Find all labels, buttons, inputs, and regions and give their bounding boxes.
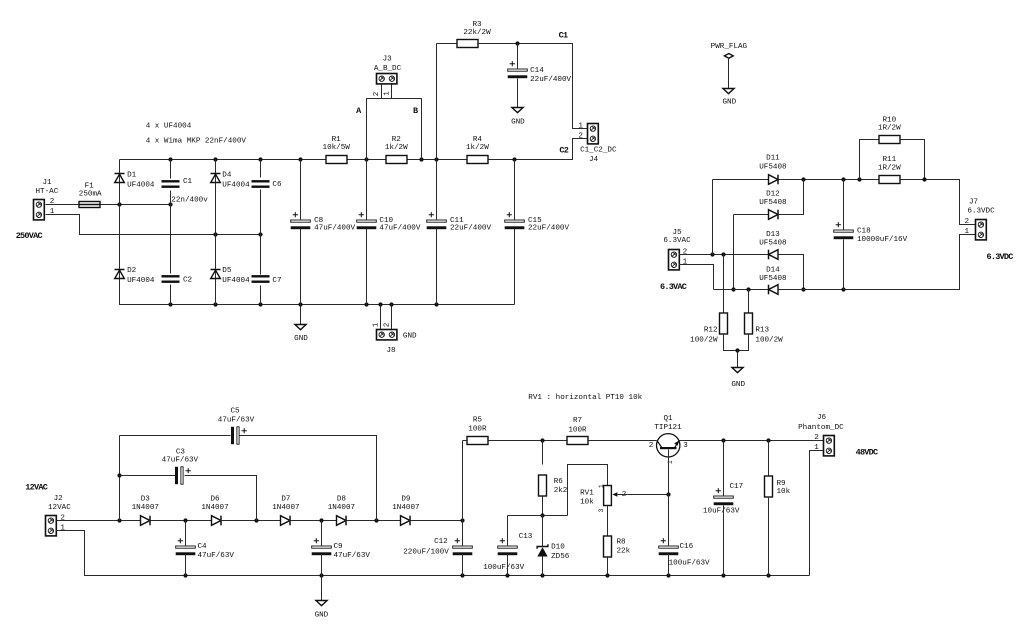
junction xyxy=(298,157,302,161)
svg-text:220uF/100V: 220uF/100V xyxy=(403,548,449,556)
svg-text:2: 2 xyxy=(384,322,392,327)
svg-text:2k2: 2k2 xyxy=(554,487,568,495)
wire R6 top xyxy=(542,441,544,465)
resistor R2 xyxy=(386,156,407,164)
junction xyxy=(721,438,725,442)
svg-text:1N4007: 1N4007 xyxy=(392,504,419,512)
wire D14 row left xyxy=(714,289,769,291)
junction xyxy=(505,573,509,577)
junction xyxy=(922,177,926,181)
wire C14 top xyxy=(517,44,519,69)
svg-text:22k/2W: 22k/2W xyxy=(463,29,491,37)
svg-text:22n/400v: 22n/400v xyxy=(171,197,208,205)
svg-text:Q1: Q1 xyxy=(663,415,673,423)
wire C8 bottom xyxy=(300,229,302,305)
svg-text:47uF/63V: 47uF/63V xyxy=(162,456,199,464)
capacitor C9 xyxy=(312,538,332,555)
svg-text:R10: R10 xyxy=(882,116,896,124)
wire J1 pin1 to bridge node xyxy=(46,215,261,235)
resistor R9 xyxy=(765,476,773,497)
wire to ground xyxy=(321,576,323,601)
junction xyxy=(540,573,544,577)
junction xyxy=(117,518,121,522)
wire R11 to J7 pin2 xyxy=(901,180,976,225)
svg-text:47uF/63V: 47uF/63V xyxy=(334,552,371,560)
wire D12 to D11 cathode xyxy=(779,180,804,215)
wire R3 to J4 pin1 xyxy=(479,44,588,129)
capacitor C14 xyxy=(508,61,528,78)
wire C5 right to diode row xyxy=(240,436,377,521)
svg-text:100R: 100R xyxy=(568,426,587,434)
wire C6 top xyxy=(260,160,262,178)
svg-text:2: 2 xyxy=(965,218,970,226)
junction xyxy=(605,573,609,577)
svg-text:12VAC: 12VAC xyxy=(25,483,47,493)
svg-text:J8: J8 xyxy=(386,347,396,355)
wire R12 R13 bottom join xyxy=(724,335,749,351)
wire J5 pin1 down to D14 row xyxy=(679,265,714,290)
wire Q1 emitter to J6 xyxy=(680,440,824,442)
junction xyxy=(766,438,770,442)
wire D3 to D6 xyxy=(150,520,212,522)
junction xyxy=(766,573,770,577)
wire R9 bottom xyxy=(768,497,770,576)
svg-text:GND: GND xyxy=(315,612,329,620)
diode D12 xyxy=(769,210,779,220)
svg-text:1k/2W: 1k/2W xyxy=(466,144,489,152)
svg-text:C2: C2 xyxy=(183,277,193,285)
svg-text:UF4004: UF4004 xyxy=(222,182,250,190)
svg-text:C4: C4 xyxy=(198,543,208,551)
diode D8 xyxy=(337,516,347,526)
svg-text:J1: J1 xyxy=(42,179,52,187)
wire D14 row to J7 pin1 xyxy=(779,235,976,290)
junction xyxy=(258,157,262,161)
svg-text:2: 2 xyxy=(649,442,654,450)
resistor R11 xyxy=(879,176,900,184)
junction xyxy=(258,232,262,236)
svg-text:C7: C7 xyxy=(272,277,281,285)
ground xyxy=(316,601,327,606)
svg-text:2: 2 xyxy=(814,434,819,442)
svg-text:1: 1 xyxy=(683,258,688,266)
svg-text:UF5408: UF5408 xyxy=(759,240,787,248)
junction xyxy=(666,573,670,577)
svg-text:UF4004: UF4004 xyxy=(222,277,250,285)
wire C18 top xyxy=(843,180,845,230)
svg-text:22uF/400V: 22uF/400V xyxy=(528,225,569,233)
resistor R10 xyxy=(879,136,900,144)
svg-text:B: B xyxy=(413,106,418,116)
wire to D11 xyxy=(713,179,769,181)
capacitor C8 xyxy=(291,212,311,229)
svg-text:100/2W: 100/2W xyxy=(755,336,783,344)
capacitor C13 xyxy=(498,538,518,555)
svg-text:100R: 100R xyxy=(468,425,487,433)
wire J1 pin2 to F1 xyxy=(46,204,79,206)
wire D11 to R11 xyxy=(779,179,879,181)
wire C12 bottom xyxy=(462,555,464,576)
svg-text:1N4007: 1N4007 xyxy=(272,504,299,512)
wire D8 to D9 xyxy=(346,520,401,522)
capacitor C18 xyxy=(834,222,854,239)
svg-text:J3: J3 xyxy=(383,56,393,64)
connector J7 xyxy=(976,220,987,240)
svg-text:6.3VAC: 6.3VAC xyxy=(663,237,691,245)
svg-text:J5: J5 xyxy=(672,229,682,237)
svg-text:D10: D10 xyxy=(551,544,565,552)
svg-text:100uF/63V: 100uF/63V xyxy=(483,564,524,572)
svg-text:10k/5W: 10k/5W xyxy=(323,144,351,152)
svg-text:UF5408: UF5408 xyxy=(759,199,787,207)
svg-text:D4: D4 xyxy=(222,172,232,180)
wire C12 top / R5 tap xyxy=(462,441,464,546)
svg-text:RV1 : horizontal PT10 10k: RV1 : horizontal PT10 10k xyxy=(528,394,642,402)
wire C13 top xyxy=(507,516,509,546)
potentiometer RV1 xyxy=(604,486,618,506)
svg-text:C6: C6 xyxy=(272,181,282,189)
capacitor C11 xyxy=(427,212,447,229)
svg-text:R8: R8 xyxy=(617,539,627,547)
svg-text:1: 1 xyxy=(383,91,391,96)
diode D14 xyxy=(769,285,779,295)
svg-text:48VDC: 48VDC xyxy=(856,448,878,458)
wire D13 to D14 row xyxy=(779,255,804,290)
junction xyxy=(374,518,378,522)
svg-text:UF5408: UF5408 xyxy=(759,164,787,172)
junction xyxy=(460,573,464,577)
junction xyxy=(364,157,368,161)
svg-text:R11: R11 xyxy=(882,156,896,164)
wire D9 to C12 node xyxy=(410,520,463,522)
svg-text:100uF/63V: 100uF/63V xyxy=(669,559,710,567)
svg-text:1N4007: 1N4007 xyxy=(201,504,228,512)
wire D10 cathode xyxy=(542,516,544,547)
svg-text:F1: F1 xyxy=(85,182,95,190)
svg-text:D11: D11 xyxy=(766,154,780,162)
wire R5 to R7 xyxy=(489,440,567,442)
svg-text:D6: D6 xyxy=(210,495,220,503)
svg-text:ZD56: ZD56 xyxy=(551,553,570,561)
svg-text:J6: J6 xyxy=(817,414,827,422)
resistor R13 xyxy=(745,313,753,334)
svg-text:6.3VDC: 6.3VDC xyxy=(967,208,995,216)
junction xyxy=(168,157,172,161)
wire R7 to Q1 collector xyxy=(589,440,657,442)
svg-text:GND: GND xyxy=(511,118,525,126)
svg-text:4 x UF4004: 4 x UF4004 xyxy=(146,122,192,130)
svg-text:1R/2W: 1R/2W xyxy=(878,125,901,133)
svg-text:47uF/400V: 47uF/400V xyxy=(379,225,420,233)
connector J2 xyxy=(46,516,57,536)
wire J5 pin2 to D13 xyxy=(679,254,769,256)
wire C10 top xyxy=(366,160,368,220)
wire to ground xyxy=(737,351,739,368)
junction xyxy=(512,157,516,161)
wire J8 pin2 stub xyxy=(391,305,393,330)
junction xyxy=(460,518,464,522)
diode D11 xyxy=(769,175,779,185)
svg-text:C9: C9 xyxy=(334,543,344,551)
svg-text:R3: R3 xyxy=(472,21,482,29)
resistor R5 xyxy=(467,437,488,445)
capacitor C17 xyxy=(714,488,734,505)
svg-text:C13: C13 xyxy=(519,533,533,541)
wire C4 bottom xyxy=(185,555,187,576)
svg-text:PWR_FLAG: PWR_FLAG xyxy=(711,43,748,51)
svg-text:2: 2 xyxy=(60,515,65,523)
junction xyxy=(168,302,172,306)
junction xyxy=(117,473,121,477)
svg-text:C3: C3 xyxy=(176,448,186,456)
wire to ground xyxy=(300,305,302,325)
junction xyxy=(364,302,368,306)
svg-text:47uF/400V: 47uF/400V xyxy=(314,225,355,233)
junction xyxy=(801,177,805,181)
svg-text:22uF/400V: 22uF/400V xyxy=(450,225,491,233)
wire D12 anode column xyxy=(733,215,735,290)
svg-text:D2: D2 xyxy=(127,267,137,275)
wire C11 bottom xyxy=(436,229,438,305)
svg-text:6.3VDC: 6.3VDC xyxy=(987,252,1014,262)
svg-text:D5: D5 xyxy=(222,267,232,275)
svg-text:GND: GND xyxy=(731,381,745,389)
svg-text:C1: C1 xyxy=(559,31,568,41)
svg-text:R1: R1 xyxy=(332,136,342,144)
wire R10 right xyxy=(901,140,925,180)
svg-text:D9: D9 xyxy=(401,495,411,503)
svg-text:UF4004: UF4004 xyxy=(127,277,155,285)
svg-text:Phantom_DC: Phantom_DC xyxy=(798,424,844,432)
junction xyxy=(117,202,121,206)
svg-text:1N4007: 1N4007 xyxy=(132,504,159,512)
capacitor C7 xyxy=(252,275,270,283)
resistor R7 xyxy=(567,437,588,445)
wire D11 anode column xyxy=(712,180,714,255)
wire to D12 xyxy=(734,214,769,216)
svg-text:10k: 10k xyxy=(777,488,791,496)
diode D7 xyxy=(281,516,291,526)
wire C4 top xyxy=(185,521,187,546)
wire J3 pin1 stub xyxy=(391,84,393,99)
connector J6 xyxy=(824,436,835,456)
wire RV1 to R8 xyxy=(607,506,609,536)
svg-text:1: 1 xyxy=(578,122,583,130)
wire bus to R3 xyxy=(437,43,457,45)
wire zener node to RV1 top xyxy=(568,465,608,516)
svg-text:1: 1 xyxy=(598,484,605,488)
wire RV1 wiper to Q1 base xyxy=(618,494,669,496)
svg-text:C12: C12 xyxy=(434,538,448,546)
wire C5 left xyxy=(120,435,231,437)
svg-text:1k/2W: 1k/2W xyxy=(385,144,408,152)
junction xyxy=(298,302,302,306)
wire node A and B loop xyxy=(367,99,422,160)
junction xyxy=(721,252,725,256)
resistor R12 xyxy=(720,313,728,334)
wire C10 bottom xyxy=(366,229,368,305)
svg-text:R7: R7 xyxy=(573,417,582,425)
wire to R12 xyxy=(723,255,725,314)
svg-text:1R/2W: 1R/2W xyxy=(878,164,901,172)
svg-text:1: 1 xyxy=(667,460,674,464)
svg-text:GND: GND xyxy=(403,332,417,340)
svg-text:C2: C2 xyxy=(559,145,568,155)
svg-text:C1_C2_DC: C1_C2_DC xyxy=(580,147,617,155)
wire to R13 xyxy=(748,290,750,314)
junction xyxy=(254,518,258,522)
junction xyxy=(258,302,262,306)
capacitor C2 xyxy=(162,275,180,283)
wire C17 bottom xyxy=(723,506,725,576)
junction xyxy=(213,157,217,161)
wire R2-R4 xyxy=(407,159,467,161)
wire C1-C2 xyxy=(170,191,172,274)
wire R1-R2 xyxy=(347,159,386,161)
svg-text:3: 3 xyxy=(683,442,688,450)
svg-text:12VAC: 12VAC xyxy=(48,504,71,512)
junction xyxy=(721,573,725,577)
wire R3 left / C11 top xyxy=(436,44,438,220)
svg-text:1: 1 xyxy=(373,322,381,327)
wire J2 pin2 to D3 xyxy=(57,520,141,522)
svg-text:R5: R5 xyxy=(473,416,483,424)
svg-text:10uF/63V: 10uF/63V xyxy=(703,508,740,516)
wire R4 to J4 pin2 xyxy=(489,139,588,160)
svg-text:GND: GND xyxy=(294,335,308,343)
diode D3 xyxy=(141,516,151,526)
wire C8 top xyxy=(300,160,302,220)
junction xyxy=(213,232,217,236)
wire J2 pin1 to bottom bus xyxy=(57,531,810,576)
resistor R4 xyxy=(467,156,488,164)
wire F1 to bridge node xyxy=(101,204,171,206)
capacitor C4 xyxy=(176,538,196,555)
svg-text:TIP121: TIP121 xyxy=(654,424,682,432)
junction xyxy=(378,302,382,306)
wire R10 left xyxy=(860,140,879,180)
wire C9 bottom xyxy=(321,555,323,576)
diode D4 xyxy=(211,174,221,183)
svg-text:250VAC: 250VAC xyxy=(16,231,43,241)
wire Q1 base to C16 xyxy=(668,450,670,546)
wire C9 top xyxy=(321,521,323,546)
svg-text:D7: D7 xyxy=(281,495,290,503)
svg-text:R2: R2 xyxy=(392,136,402,144)
junction xyxy=(540,438,544,442)
svg-text:UF5408: UF5408 xyxy=(759,275,787,283)
svg-text:C17: C17 xyxy=(730,483,744,491)
svg-text:C1: C1 xyxy=(183,178,193,186)
junction xyxy=(389,302,393,306)
wire C18 bottom xyxy=(843,240,845,290)
svg-text:1: 1 xyxy=(965,228,970,236)
junction xyxy=(801,287,805,291)
svg-text:C18: C18 xyxy=(857,228,871,236)
svg-text:3: 3 xyxy=(598,508,605,512)
capacitor C12 xyxy=(453,538,473,555)
svg-text:R13: R13 xyxy=(755,327,769,335)
junction xyxy=(319,573,323,577)
svg-text:4 x Wima MKP 22nF/400V: 4 x Wima MKP 22nF/400V xyxy=(146,138,247,146)
connector J3 xyxy=(377,74,397,84)
wire C16 bottom xyxy=(668,555,670,576)
svg-text:2: 2 xyxy=(373,91,381,96)
diode D2 xyxy=(115,270,125,279)
svg-text:D1: D1 xyxy=(127,172,137,180)
wire C3 left xyxy=(120,475,176,477)
wire left column bottom section xyxy=(119,436,121,521)
svg-text:R4: R4 xyxy=(473,136,483,144)
junction xyxy=(540,513,544,517)
svg-text:22uF/400V: 22uF/400V xyxy=(530,76,571,84)
wire R6 to D10 xyxy=(542,497,544,516)
svg-text:10k: 10k xyxy=(580,499,594,507)
svg-text:D3: D3 xyxy=(141,495,151,503)
diode D6 xyxy=(212,516,222,526)
svg-text:100/2W: 100/2W xyxy=(690,336,718,344)
junction xyxy=(666,492,670,496)
svg-text:RV1: RV1 xyxy=(580,490,594,498)
ground xyxy=(732,368,743,373)
wire R9 top xyxy=(768,441,770,476)
capacitor C5 xyxy=(231,427,247,444)
wire D7 to D8 xyxy=(290,520,337,522)
capacitor C10 xyxy=(357,212,377,229)
capacitor C6 xyxy=(252,180,270,188)
wire to R5 xyxy=(463,440,467,442)
wire C6-C7 xyxy=(260,190,262,275)
svg-text:J7: J7 xyxy=(969,199,978,207)
junction xyxy=(710,252,714,256)
diode D9 xyxy=(401,516,411,526)
svg-text:22k: 22k xyxy=(617,547,631,555)
junction xyxy=(183,518,187,522)
capacitor C1 xyxy=(162,180,180,188)
svg-text:J2: J2 xyxy=(54,495,64,503)
wire C13 D10 link xyxy=(508,515,568,517)
capacitor C15 xyxy=(505,212,525,229)
transistor Q1 xyxy=(657,434,680,457)
svg-text:1N4007: 1N4007 xyxy=(328,504,355,512)
junction xyxy=(434,302,438,306)
wire C2 bottom xyxy=(170,285,172,305)
wire top bus left xyxy=(120,159,326,161)
svg-text:C5: C5 xyxy=(230,407,240,415)
wire C7 bottom xyxy=(260,286,262,305)
wire J8 pin1 stub xyxy=(380,305,382,330)
zener diode D10 xyxy=(537,544,548,556)
junction xyxy=(731,287,735,291)
svg-text:10000uF/16V: 10000uF/16V xyxy=(857,236,908,244)
svg-text:D12: D12 xyxy=(766,191,780,199)
connector J4 xyxy=(588,124,599,144)
connector J5 xyxy=(669,250,680,270)
wire J3 pin2 stub xyxy=(381,84,383,99)
svg-text:C16: C16 xyxy=(680,543,694,551)
wire C14 to ground xyxy=(517,79,519,108)
svg-text:R12: R12 xyxy=(704,327,718,335)
connector J8 xyxy=(377,330,397,340)
svg-text:A_B_DC: A_B_DC xyxy=(374,65,402,73)
svg-text:1: 1 xyxy=(60,525,65,533)
diode D5 xyxy=(211,270,221,279)
wire D6 to D7 xyxy=(221,520,281,522)
svg-text:47uF/63V: 47uF/63V xyxy=(198,552,235,560)
svg-text:R6: R6 xyxy=(554,478,564,486)
svg-text:GND: GND xyxy=(722,98,736,106)
wire C3 right to diode row xyxy=(185,476,257,521)
